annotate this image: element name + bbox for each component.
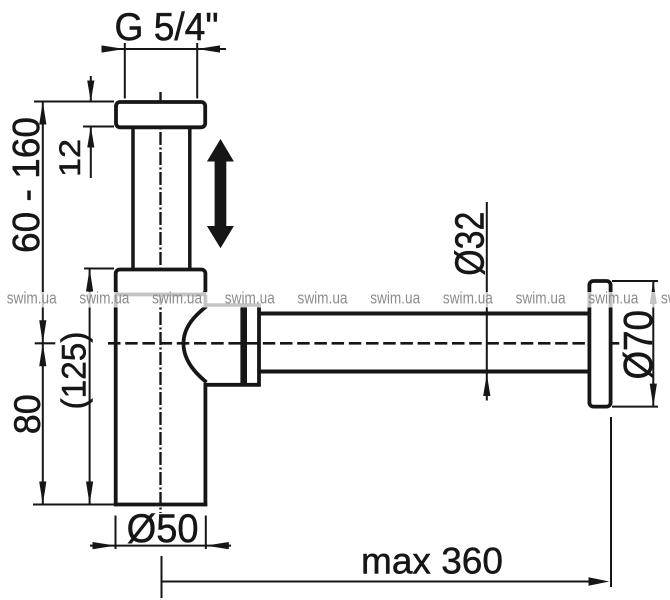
ext line flange bottom left <box>83 126 114 128</box>
nut right edge <box>257 303 261 386</box>
svg-text:80: 80 <box>6 394 48 434</box>
O70 ext top <box>612 280 658 282</box>
svg-text:Ø50: Ø50 <box>127 507 199 551</box>
dim 60-160 line <box>42 102 44 344</box>
dim O70 line <box>652 281 654 407</box>
ext line body bottom left <box>33 504 114 506</box>
dim 12 top arrow <box>90 76 92 102</box>
vertical pipe wall right <box>188 128 192 269</box>
max360 left ext <box>161 556 163 598</box>
body right wall lower <box>203 383 207 506</box>
adjustability double arrow <box>207 139 234 248</box>
max360 arrow <box>589 577 610 585</box>
svg-text:swim.ua: swim.ua <box>79 289 129 308</box>
O32 arrow <box>483 374 490 396</box>
svg-text:swim.ua: swim.ua <box>152 289 202 308</box>
dim 80 line <box>42 343 44 504</box>
svg-text:swim.ua: swim.ua <box>225 289 275 308</box>
svg-text:swim.ua: swim.ua <box>516 289 566 308</box>
svg-text:swim.ua: swim.ua <box>661 289 670 308</box>
svg-text:Ø70: Ø70 <box>615 310 661 380</box>
elbow dome <box>184 306 207 382</box>
60-160 top arrow <box>39 102 46 125</box>
svg-text:Ø32: Ø32 <box>447 212 493 276</box>
wall flange <box>589 281 610 407</box>
body top flange <box>116 270 206 295</box>
125 bottom arrow <box>86 482 93 505</box>
svg-text:G 5/4": G 5/4" <box>115 6 219 49</box>
80 top arrow <box>39 343 46 366</box>
G 5/4 extension line left <box>124 43 126 99</box>
ext line flange top left <box>34 101 114 103</box>
body bottom <box>114 503 207 507</box>
O70 ext bottom <box>612 406 658 408</box>
60-160 bottom arrow <box>39 320 46 343</box>
horizontal centerline <box>108 342 620 345</box>
nut seam bar <box>240 303 247 386</box>
G 5/4 extension line right <box>196 43 198 99</box>
vertical centerline <box>159 92 161 513</box>
125 top arrow <box>86 269 93 292</box>
dim O32 line <box>486 202 488 401</box>
ext line body flange top left <box>84 268 114 270</box>
dim 125 line <box>89 269 91 505</box>
outlet pipe top <box>261 312 590 316</box>
svg-text:swim.ua: swim.ua <box>370 289 420 308</box>
G 5/4 right arrow <box>197 45 220 52</box>
max360 right ext <box>610 417 612 587</box>
dim O50 line <box>90 545 231 547</box>
elbow bottom line <box>205 383 261 387</box>
outlet pipe bottom <box>261 370 590 374</box>
O70 top arrow <box>650 281 657 304</box>
O50 ext right <box>205 516 207 550</box>
O50 ext left <box>115 516 117 550</box>
svg-text:swim.ua: swim.ua <box>298 289 348 308</box>
svg-text:swim.ua: swim.ua <box>588 289 638 308</box>
G 5/4 dimension line <box>102 48 226 50</box>
top flange <box>116 102 205 127</box>
G 5/4 left arrow <box>102 45 125 52</box>
svg-text:(125): (125) <box>56 332 94 410</box>
body right wall upper <box>203 295 207 307</box>
elbow top line <box>205 303 261 307</box>
svg-text:max 360: max 360 <box>361 541 503 582</box>
tick at centerline <box>35 342 56 344</box>
svg-text:60 - 160: 60 - 160 <box>6 117 48 253</box>
svg-text:swim.ua: swim.ua <box>443 289 493 308</box>
dim max360 line <box>162 581 601 583</box>
watermark band <box>0 292 670 308</box>
O70 bottom arrow <box>650 384 657 407</box>
svg-text:swim.ua: swim.ua <box>7 289 57 308</box>
watermark texts <box>7 289 670 308</box>
O50 left arrow <box>93 542 116 549</box>
vertical pipe wall left <box>131 128 135 269</box>
O50 right arrow <box>206 542 229 549</box>
body left wall <box>114 295 118 507</box>
svg-text:12: 12 <box>54 139 87 177</box>
80 bottom arrow <box>39 482 46 505</box>
dim 12 bottom arrow <box>90 127 92 179</box>
